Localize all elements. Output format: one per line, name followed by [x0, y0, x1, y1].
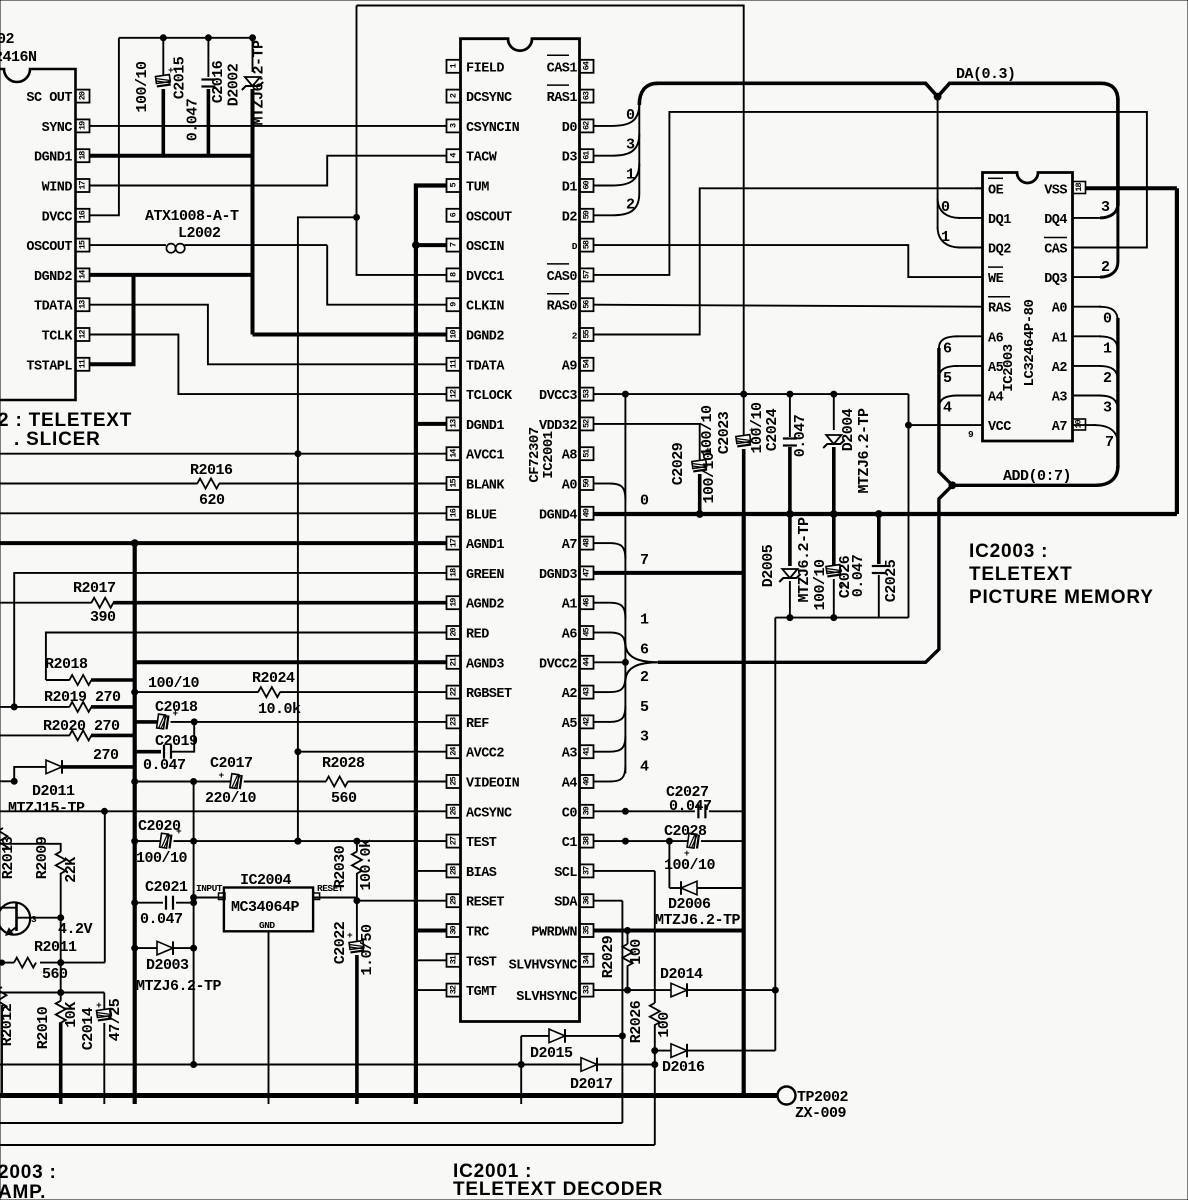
IC2001 pin 27 TEST: [447, 835, 461, 848]
svg-text:18: 18: [1074, 183, 1084, 192]
IC2001 pin 14 AVCC1: [447, 447, 461, 460]
svg-text:63: 63: [582, 91, 592, 100]
wire BLANK line with R2016: [0, 483, 198, 485]
svg-text:A5: A5: [988, 361, 1004, 376]
IC2001 pin 17 AGND1: [447, 537, 461, 550]
svg-text:57: 57: [582, 270, 592, 279]
svg-text:3: 3: [31, 914, 37, 925]
IC2001 pin 61 D3: [580, 149, 594, 162]
wire TDATA jog: [90, 305, 447, 365]
wire PWRDWN thick: [594, 929, 744, 933]
svg-text:61: 61: [582, 151, 592, 160]
IC2001 pin 23 REF: [447, 715, 461, 728]
svg-text:R2012: R2012: [0, 1003, 16, 1046]
wire VCC rail drop: [774, 618, 776, 1051]
bus ADD left vertical up to A6: [939, 348, 953, 485]
IC IC2001 CF72307 teletext decoder body: [461, 39, 580, 1022]
svg-text:MTZJ6.2-TP: MTZJ6.2-TP: [856, 408, 873, 494]
IC2001 pin 43 A2: [580, 686, 594, 699]
svg-text:+: +: [219, 770, 225, 781]
svg-text:C2023: C2023: [716, 411, 733, 454]
svg-text:4: 4: [943, 400, 952, 417]
svg-text:18: 18: [78, 151, 88, 160]
junction DVCC1 branch: [354, 214, 360, 220]
svg-text:D1: D1: [562, 181, 578, 196]
svg-text:220/10: 220/10: [205, 790, 257, 807]
svg-text:100/10: 100/10: [136, 850, 188, 867]
IC2001 pin 33 SLVHSYNC: [580, 984, 594, 997]
IC2001 pin 32 TGMT: [447, 984, 461, 997]
svg-text:21: 21: [449, 657, 459, 666]
svg-text:1: 1: [626, 167, 635, 184]
svg-text:59: 59: [582, 210, 592, 219]
svg-text:33: 33: [582, 985, 592, 994]
svg-text:270: 270: [93, 747, 119, 764]
wire TUM thick vertical: [416, 186, 447, 1096]
svg-text:39: 39: [582, 806, 592, 815]
svg-text:MTZJ6.2-TP: MTZJ6.2-TP: [796, 517, 813, 603]
wire A-pin 46 bus entry 1: [594, 602, 610, 604]
IC2001 pin 12 TCLOCK: [447, 388, 461, 401]
svg-text:CSYNCIN: CSYNCIN: [466, 121, 520, 136]
svg-text:12: 12: [78, 330, 88, 339]
svg-text:A4: A4: [988, 391, 1004, 406]
wire top power rail: [357, 6, 744, 395]
wire VSS thick: [1086, 186, 1177, 190]
svg-text:. SLICER: . SLICER: [14, 429, 101, 450]
IC2001 pin 36 SDA: [580, 894, 594, 907]
svg-text:17: 17: [449, 538, 459, 547]
wire AGND2 line left: [0, 602, 92, 604]
svg-text:DVCC3: DVCC3: [539, 389, 577, 404]
wire TGST stub: [416, 959, 447, 961]
IC2001 pin 19 AGND2: [447, 596, 461, 609]
svg-text:A6: A6: [562, 628, 578, 643]
svg-text:BLANK: BLANK: [466, 479, 505, 494]
IC2001 pin 30 TRC: [447, 924, 461, 937]
IC2001 pin 34 SLVHVSYNC: [580, 954, 594, 967]
wire TGMT stub: [416, 989, 447, 991]
svg-text:45: 45: [582, 628, 592, 637]
svg-text:TDATA: TDATA: [34, 300, 73, 315]
wire AGND1 thick line: [0, 541, 447, 545]
resistor R2028 560: [326, 777, 348, 787]
svg-text:47/25: 47/25: [107, 998, 124, 1041]
svg-text:R2009: R2009: [34, 836, 51, 879]
svg-text:A8: A8: [562, 449, 578, 464]
wire A-pin 40 bus entry 4: [594, 781, 610, 783]
svg-text:VSS: VSS: [1044, 183, 1067, 198]
svg-text:C2014: C2014: [80, 1007, 97, 1050]
svg-text:0.047: 0.047: [850, 555, 867, 598]
IC2002 pin 20 SC OUT: [76, 90, 90, 103]
resistor R2013 (cut): [0, 828, 8, 850]
junction R2010: [58, 990, 64, 996]
junction DGND4 C2025: [875, 511, 882, 518]
svg-text:C2024: C2024: [764, 408, 781, 451]
junction DVCC2 bus: [622, 659, 628, 665]
svg-text:C2016: C2016: [210, 60, 227, 103]
wire VCC to memory: [909, 424, 983, 426]
svg-text:15: 15: [449, 479, 459, 488]
bus DA right corner to vertical: [1101, 83, 1118, 100]
IC2002 pin 16 DVCC: [76, 209, 90, 222]
capacitor C2020 100/10: [160, 833, 172, 848]
svg-text:22K: 22K: [63, 857, 80, 883]
svg-text:44: 44: [582, 657, 592, 666]
svg-text:BLUE: BLUE: [466, 508, 497, 523]
svg-text:AGND1: AGND1: [466, 538, 504, 553]
IC2001 pin 44 DVCC2: [580, 656, 594, 669]
svg-text:RED: RED: [466, 628, 489, 643]
svg-text:2 : TELETEXT: 2 : TELETEXT: [0, 410, 132, 431]
svg-text:64: 64: [582, 61, 592, 70]
svg-text:12: 12: [449, 389, 459, 398]
wire pin58 to WE: [594, 245, 983, 277]
svg-text:MC34064P: MC34064P: [231, 899, 300, 916]
wire memory A entry 6: [939, 336, 958, 348]
wire memory A entry right 2: [1073, 365, 1102, 367]
svg-text:49: 49: [582, 508, 592, 517]
junction VCC node: [906, 422, 912, 428]
diode D2004 zener MTZJ6.2-TP: [833, 394, 835, 430]
svg-text:DQ3: DQ3: [1044, 272, 1067, 287]
svg-text:D2011: D2011: [32, 783, 75, 800]
svg-text:40: 40: [582, 777, 592, 786]
svg-text:35: 35: [582, 926, 592, 935]
IC2001 pin 15 BLANK: [447, 477, 461, 490]
svg-text:5: 5: [640, 699, 649, 716]
svg-text:A1: A1: [1052, 331, 1068, 346]
svg-text:TCLOCK: TCLOCK: [466, 389, 513, 404]
svg-text:PWRDWN: PWRDWN: [531, 926, 577, 941]
svg-text:MTZJ6.2-TP: MTZJ6.2-TP: [136, 978, 222, 995]
svg-text:2: 2: [572, 331, 578, 342]
svg-text:1: 1: [941, 229, 950, 246]
IC2001 pin 9 CLKIN: [447, 298, 461, 311]
svg-text:15: 15: [78, 240, 88, 249]
svg-text:R2013: R2013: [0, 836, 17, 879]
wire D2015 line: [521, 1035, 549, 1037]
bus ADD vertical at IC2001: [624, 394, 626, 773]
wire A-pin 48 bus entry 7: [594, 542, 610, 544]
svg-text:R2028: R2028: [322, 755, 365, 772]
svg-text:0: 0: [941, 199, 950, 216]
test point TP2002 ZX-009: [778, 1087, 796, 1105]
IC2002 pin 12 TCLK: [76, 328, 90, 341]
junction TEST power col: [295, 838, 301, 844]
svg-text:AGND2: AGND2: [466, 598, 504, 613]
svg-text:29: 29: [449, 896, 459, 905]
overline RAS0: [547, 293, 569, 295]
svg-text:16: 16: [449, 508, 459, 517]
junction DVCC3 D2004: [831, 391, 837, 397]
svg-text:46: 46: [582, 598, 592, 607]
svg-text:47: 47: [582, 568, 592, 577]
junction DGND4 D2005: [787, 511, 794, 518]
svg-text:VIDEOIN: VIDEOIN: [466, 777, 520, 792]
wire stub below bus IC2004 GND: [268, 1096, 270, 1105]
IC2001 pin 46 A1: [580, 596, 594, 609]
svg-text:100/10: 100/10: [148, 675, 200, 692]
IC2002 pin 15 OSCOUT: [76, 239, 90, 252]
wire IC2004 GND to ground bus: [268, 931, 270, 1095]
wire DGND4 thick line: [594, 512, 1177, 516]
IC2002 pin 17 WIND: [76, 179, 90, 192]
wire A-pin 43 bus entry 2: [594, 691, 610, 693]
wire R2011 line up to ACSYNC: [104, 811, 106, 962]
svg-text:TP2002: TP2002: [797, 1089, 849, 1106]
wire REF line: [194, 721, 446, 723]
svg-text:TCLK: TCLK: [42, 330, 74, 345]
svg-text:TGST: TGST: [466, 955, 497, 970]
svg-text:D2017: D2017: [570, 1076, 613, 1093]
wire OSCIN stub: [416, 243, 447, 247]
svg-text:TSTAPL: TSTAPL: [26, 359, 72, 374]
resistor R2017 390: [91, 598, 113, 608]
junction AVCC2: [295, 749, 301, 755]
svg-text:13: 13: [78, 300, 88, 309]
svg-text:AGND3: AGND3: [466, 657, 504, 672]
svg-text:54: 54: [582, 359, 592, 368]
diode D2015: [549, 1029, 565, 1043]
IC2001 pin 1 FIELD: [447, 60, 461, 73]
svg-text:7: 7: [640, 552, 649, 569]
svg-text:AVCC1: AVCC1: [466, 449, 504, 464]
wire DQ1 entry 0: [938, 198, 960, 218]
junction DVCC3 C2024: [787, 391, 793, 397]
svg-text:5: 5: [943, 370, 952, 387]
IC IC2004 MC34064P reset supervisor: [224, 888, 313, 932]
wire R2010 top line: [0, 992, 104, 994]
wire OE pin tick: [975, 187, 983, 189]
svg-text:52: 52: [582, 419, 592, 428]
svg-text:RAS1: RAS1: [547, 91, 578, 106]
IC2001 pin 56 RAS0: [580, 298, 594, 311]
wire A-pin 42 bus entry 5: [594, 721, 610, 723]
svg-text:C2019: C2019: [155, 733, 198, 750]
svg-text:R2026: R2026: [628, 1000, 645, 1043]
wire stub below bus C2022: [355, 1096, 359, 1105]
junction C2020 D2003col: [191, 838, 197, 844]
svg-text:CLKIN: CLKIN: [466, 300, 504, 315]
svg-text:R2018: R2018: [45, 656, 88, 673]
IC2001 pin 57 CAS0: [580, 268, 594, 281]
wire BIAS stub: [416, 870, 447, 872]
svg-text:14: 14: [449, 449, 459, 458]
svg-text:D2006: D2006: [668, 896, 711, 913]
svg-text:16: 16: [78, 210, 88, 219]
junction GREEN R2019: [11, 704, 17, 710]
svg-text:560: 560: [42, 966, 68, 983]
overline RAS1: [547, 84, 569, 86]
svg-text:SLVHSYNC: SLVHSYNC: [516, 990, 577, 1005]
svg-text:DGND2: DGND2: [466, 330, 504, 345]
ground rail thick vertical x=134.7: [133, 543, 137, 1095]
IC2001 pin 7 OSCIN: [447, 239, 461, 252]
svg-text:C0: C0: [562, 806, 578, 821]
IC2001 pin 55 2: [580, 328, 594, 341]
svg-text:58: 58: [582, 240, 592, 249]
bus DA wires from D0-D2 pins: [594, 125, 612, 127]
svg-text:SDA: SDA: [554, 896, 578, 911]
IC2001 pin 37 SCL: [580, 864, 594, 877]
svg-text:25: 25: [449, 777, 459, 786]
svg-text:IC2001: IC2001: [541, 431, 557, 479]
junction DVCC3 addbus: [622, 391, 628, 397]
IC2001 pin 3 CSYNCIN: [447, 119, 461, 132]
svg-text:19: 19: [449, 598, 459, 607]
svg-text:R2030: R2030: [332, 845, 349, 888]
IC2001 pin 60 D1: [580, 179, 594, 192]
svg-text:GREEN: GREEN: [466, 568, 504, 583]
IC2001 pin 45 A6: [580, 626, 594, 639]
svg-text:AVCC2: AVCC2: [466, 747, 504, 762]
junction D2003 column top: [191, 779, 197, 785]
svg-text:100/10: 100/10: [701, 452, 718, 504]
svg-text:6: 6: [640, 642, 649, 659]
svg-text:D2014: D2014: [660, 966, 703, 983]
IC2001 pin 6 OSCOUT: [447, 209, 461, 222]
svg-text:SCL: SCL: [554, 866, 577, 881]
svg-text:37: 37: [582, 866, 592, 875]
svg-text:2: 2: [1103, 370, 1112, 387]
svg-text:27: 27: [449, 836, 459, 845]
wire collector 4.2V node: [17, 917, 61, 919]
junction C2018 REF: [191, 719, 197, 725]
wire D2003 column: [193, 782, 195, 1065]
svg-text:13: 13: [449, 419, 459, 428]
svg-text:WE: WE: [988, 272, 1004, 287]
svg-text:R2011: R2011: [34, 939, 77, 956]
IC2001 pin 51 A8: [580, 447, 594, 460]
wire memory A entry 5: [939, 366, 958, 378]
svg-text:3: 3: [640, 729, 649, 746]
svg-text:ADD(0:7): ADD(0:7): [1003, 468, 1071, 485]
svg-text:DGND2: DGND2: [34, 270, 72, 285]
svg-text:43: 43: [582, 687, 592, 696]
svg-text:D2005: D2005: [760, 544, 777, 587]
wire VCC rail horizontal: [775, 617, 908, 619]
capacitor C2015 100/10: [162, 38, 164, 76]
svg-text:TUM: TUM: [466, 181, 489, 196]
svg-text:C1: C1: [562, 836, 578, 851]
svg-text:48: 48: [582, 538, 592, 547]
svg-text:3: 3: [626, 137, 635, 154]
svg-text:AMP.: AMP.: [0, 1182, 46, 1200]
junction rail C2026: [831, 615, 837, 621]
diode D2016: [671, 1044, 687, 1058]
wire branch to AVCC1 column: [298, 217, 357, 841]
wire TRC stub: [416, 929, 447, 933]
diode D2017: [581, 1058, 597, 1072]
svg-text:OSCOUT: OSCOUT: [26, 240, 72, 255]
IC2001 pin 10 DGND2: [447, 328, 461, 341]
IC2001 pin 28 BIAS: [447, 864, 461, 877]
wire decoupling rail top: [119, 37, 253, 39]
IC2001 pin 47 DGND3: [580, 566, 594, 579]
svg-text:0: 0: [640, 493, 649, 510]
capacitor C2022 1.0/50: [356, 901, 358, 941]
IC2001 pin 62 D0: [580, 119, 594, 132]
svg-text:D2016: D2016: [662, 1059, 705, 1076]
svg-text:0.047: 0.047: [669, 798, 712, 815]
IC2001 pin 13 DGND1: [447, 417, 461, 430]
svg-text:7: 7: [1105, 434, 1114, 451]
svg-text:DGND3: DGND3: [539, 568, 577, 583]
svg-text:100: 100: [656, 1012, 673, 1038]
diode D2006 MTZJ6.2-TP: [669, 887, 681, 889]
ground strap thick vertical: [742, 514, 746, 1096]
IC2001 pin 20 RED: [447, 626, 461, 639]
svg-text:SC OUT: SC OUT: [26, 91, 72, 106]
svg-text:DVCC: DVCC: [42, 210, 73, 225]
svg-text:PICTURE MEMORY: PICTURE MEMORY: [969, 587, 1154, 608]
svg-text:D2002: D2002: [226, 63, 243, 106]
svg-text:CAS: CAS: [1044, 243, 1067, 258]
capacitor C2017 220/10: [230, 774, 242, 789]
svg-text:TGMT: TGMT: [466, 985, 497, 1000]
svg-text:1: 1: [640, 612, 649, 629]
svg-text:23: 23: [449, 717, 459, 726]
svg-text:OSCOUT: OSCOUT: [466, 210, 512, 225]
svg-text:IC2003: IC2003: [1001, 344, 1017, 392]
wire D2015 left vertical to bus: [520, 1036, 522, 1096]
capacitor C2026 100/10: [832, 514, 836, 566]
wire D2002 ground vertical to DGND2: [251, 89, 255, 335]
svg-text:100: 100: [628, 939, 645, 965]
junction collector R2009: [58, 915, 64, 921]
svg-text:55: 55: [582, 330, 592, 339]
IC2001 pin 38 C1: [580, 835, 594, 848]
svg-text:R2016: R2016: [190, 462, 233, 479]
wire stub below bus R2010: [59, 1096, 63, 1105]
svg-text:C2015: C2015: [172, 56, 189, 99]
wire BLUE line: [0, 512, 447, 514]
IC2001 pin 8 DVCC1: [447, 268, 461, 281]
svg-text:100/10: 100/10: [812, 559, 829, 611]
svg-text:0.047: 0.047: [792, 415, 809, 458]
svg-text:20: 20: [78, 91, 88, 100]
svg-text:11: 11: [449, 359, 459, 368]
svg-text:D: D: [572, 241, 578, 252]
IC2001 pin 63 RAS1: [580, 90, 594, 103]
IC2002 pin 18 DGND1: [76, 149, 90, 162]
svg-text:RESET: RESET: [466, 896, 504, 911]
wire DVCC3 corner to VCC node: [908, 394, 910, 425]
svg-text:2: 2: [1101, 259, 1110, 276]
bus DA thick horizontal: [656, 83, 1101, 96]
IC2001 pin 41 A3: [580, 745, 594, 758]
wire C2028 D2006 left vertical: [668, 841, 670, 888]
wire SDA off-page: [0, 1122, 622, 1124]
svg-text:C2028: C2028: [664, 823, 707, 840]
svg-text:A0: A0: [562, 479, 578, 494]
wire emitter with arrow: [6, 927, 17, 935]
svg-text:560: 560: [331, 790, 357, 807]
svg-text:C2017: C2017: [210, 755, 253, 772]
wire DQ2 entry 1: [938, 227, 960, 248]
svg-text:BIAS: BIAS: [466, 866, 497, 881]
svg-text:DCSYNC: DCSYNC: [466, 91, 512, 106]
svg-text:100/10: 100/10: [134, 61, 151, 113]
IC2001 pin 5 TUM: [447, 179, 461, 192]
resistor R2009 22K: [0, 844, 61, 852]
inductor L2002 ATX1008-A-T: [90, 244, 166, 246]
svg-text:ZX-009: ZX-009: [795, 1105, 847, 1122]
svg-text:34: 34: [582, 955, 592, 964]
wire SDA line: [594, 900, 622, 902]
